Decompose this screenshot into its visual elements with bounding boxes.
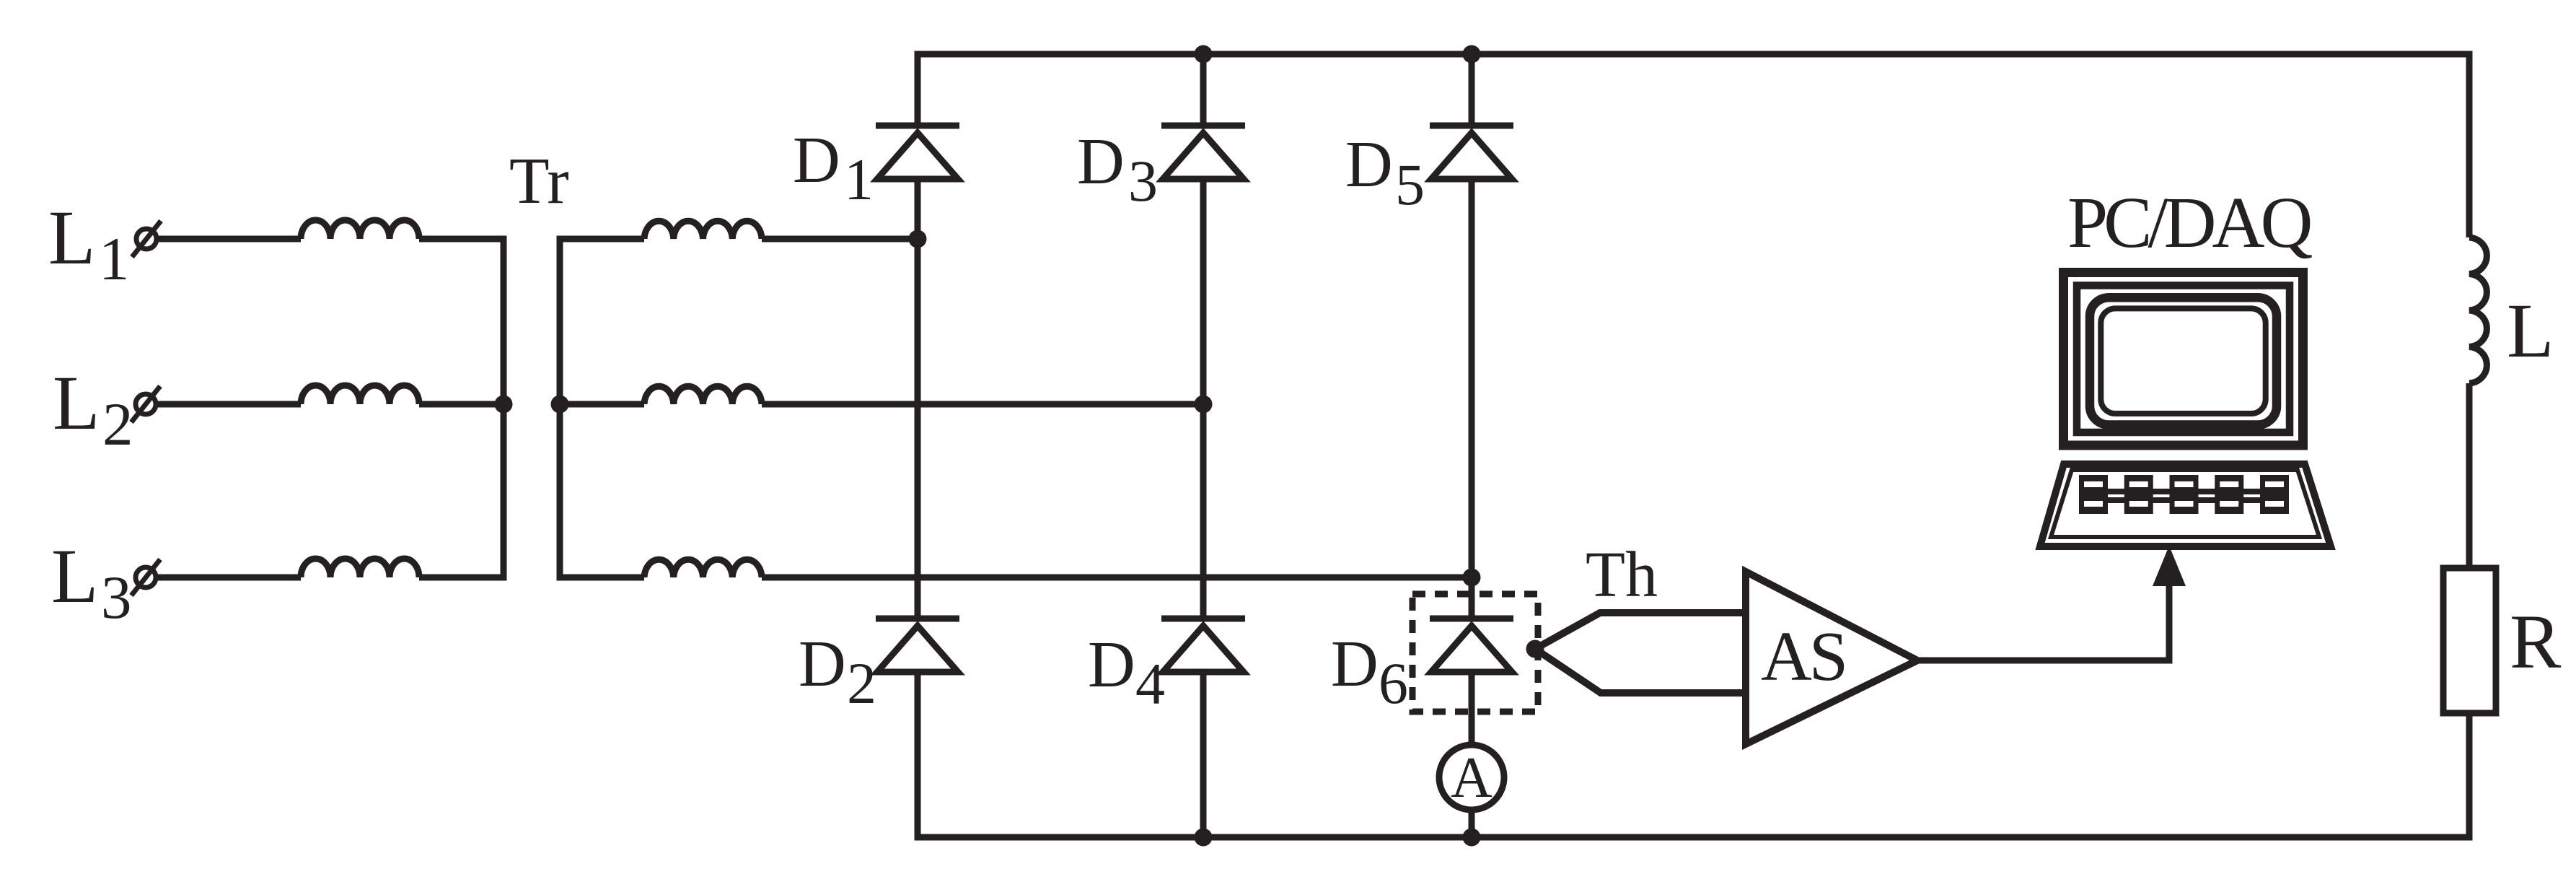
wire secondary row1 to node a — [762, 236, 918, 243]
wire winding1 to primary bus — [419, 236, 504, 243]
resistor R — [2443, 568, 2496, 713]
terminal L1 — [136, 229, 157, 249]
wire top bus (D1 top to right corner) — [918, 54, 2469, 237]
wire column 3 middle — [1469, 179, 1475, 619]
keyboard key band — [2105, 489, 2263, 503]
terminal L2 — [136, 394, 156, 414]
op-amp AS (amplifier) — [1746, 572, 1917, 744]
node: secondary bus / L2 — [551, 396, 569, 414]
wire bottom bus (R bottom, right corner to D2 bottom) — [918, 673, 2469, 837]
transformer Tr primary winding 3 — [301, 559, 419, 577]
svg-text:5: 5 — [1395, 152, 1425, 217]
svg-text:D: D — [1345, 128, 1393, 201]
svg-text:2: 2 — [102, 390, 133, 458]
svg-text:L: L — [48, 196, 95, 281]
svg-text:3: 3 — [101, 564, 132, 632]
svg-text:AS: AS — [1761, 618, 1845, 696]
wire secondary row3 start — [560, 575, 644, 581]
transformer Tr primary winding 2 — [301, 385, 419, 404]
wire winding2 to primary bus — [419, 401, 504, 408]
transformer Tr secondary winding 3 — [644, 559, 762, 577]
svg-text:Th: Th — [1586, 539, 1658, 611]
wire column 1 middle — [915, 179, 921, 619]
node a: L1 sec to D1/D2 column — [909, 230, 927, 248]
wire primary star bus — [501, 236, 507, 581]
screen inner — [2101, 308, 2265, 414]
wire secondary star bus — [557, 236, 563, 581]
monitor inner frame — [2077, 286, 2290, 433]
node: primary bus / L2 — [495, 396, 513, 414]
ammeter A — [1439, 745, 1504, 810]
screen outer — [2090, 297, 2277, 424]
node: top bus / D5 — [1463, 45, 1481, 64]
svg-text:A: A — [1451, 746, 1493, 810]
svg-text:1: 1 — [844, 147, 874, 212]
keyboard base outer — [2040, 464, 2331, 546]
svg-text:6: 6 — [1379, 650, 1408, 716]
diode D3 — [1161, 123, 1245, 129]
svg-text:D: D — [1077, 125, 1125, 198]
node: probe contact on D6 — [1526, 640, 1544, 658]
dashed box around D6 — [1412, 594, 1538, 712]
probe Th upper lead — [1535, 613, 1746, 649]
computer PC/DAQ monitor outer frame — [2064, 273, 2303, 446]
diode D6 (device under test) — [1430, 616, 1513, 622]
diode D5 — [1430, 123, 1513, 129]
wire secondary row2 to node b — [762, 401, 1203, 408]
svg-text:1: 1 — [99, 225, 130, 293]
svg-text:4: 4 — [1135, 651, 1165, 717]
diode D4 — [1161, 616, 1245, 622]
wire column 2 top lead — [1200, 54, 1207, 126]
wire D6 to ammeter — [1469, 672, 1475, 743]
svg-text:PC/DAQ: PC/DAQ — [2067, 182, 2312, 263]
node: top bus / D3 — [1195, 45, 1213, 64]
svg-text:D: D — [1088, 628, 1135, 701]
svg-text:2: 2 — [847, 650, 876, 716]
wire column 3 top lead — [1469, 54, 1475, 126]
node: bottom bus / D4 — [1195, 829, 1213, 847]
wire L1 primary — [159, 236, 301, 243]
svg-text:D: D — [1331, 627, 1379, 700]
wire AS output to PC arrow — [1917, 585, 2169, 660]
wire secondary row1 start — [560, 236, 644, 243]
svg-text:R: R — [2510, 600, 2562, 685]
svg-text:Tr: Tr — [509, 144, 569, 217]
wire column 2 bottom lead — [1200, 672, 1207, 837]
wire L3 primary — [158, 575, 301, 581]
keyboard keys — [2079, 475, 2289, 514]
svg-text:3: 3 — [1128, 148, 1158, 214]
svg-text:D: D — [793, 123, 840, 196]
node: bottom bus / ammeter — [1463, 829, 1481, 847]
wire secondary row2 start — [560, 401, 644, 408]
inductor L (load coil, right side) — [2469, 237, 2487, 383]
wire L coil to resistor R — [2466, 383, 2473, 568]
arrow head into PC/DAQ — [2153, 546, 2186, 586]
diode D2 — [876, 616, 959, 622]
diode D1 — [876, 123, 959, 129]
probe Th lower lead — [1535, 649, 1746, 693]
svg-text:L: L — [2507, 289, 2554, 374]
svg-text:D: D — [799, 627, 846, 700]
transformer Tr primary winding 1 — [301, 220, 419, 239]
wire secondary row3 to node c — [762, 575, 1472, 581]
terminal L3 — [136, 567, 156, 588]
node c: L3 sec to D5/D6 column — [1463, 569, 1481, 587]
transformer Tr secondary winding 2 — [644, 386, 762, 404]
svg-text:L: L — [51, 534, 98, 619]
wire L2 primary — [158, 401, 301, 408]
wire column 2 middle — [1200, 179, 1207, 619]
node b: L2 sec to D3/D4 column — [1195, 396, 1213, 414]
keyboard base inner line — [2051, 470, 2319, 537]
transformer Tr secondary winding 1 — [644, 221, 762, 239]
svg-text:L: L — [53, 361, 100, 446]
wire winding3 to primary bus — [419, 575, 504, 581]
wire ammeter to bottom bus — [1469, 809, 1475, 837]
